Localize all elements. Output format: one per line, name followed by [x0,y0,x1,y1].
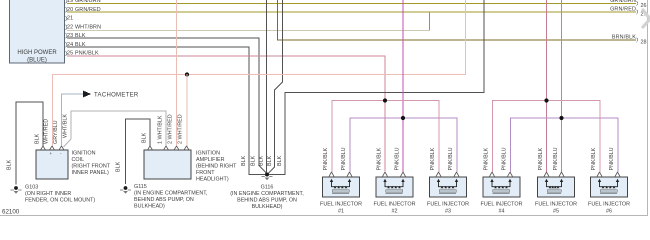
wire BRN/BLK vertical from top [277,0,278,40]
svg-text:PNK/BLU: PNK/BLU [448,147,454,170]
svg-text:IGNITION: IGNITION [196,151,220,157]
wire GRN/BRN row pin19 to pin26 [67,3,636,4]
svg-text:PNK/BLK: PNK/BLK [323,147,329,170]
connector pin brackets left (pins 19-25) [66,0,68,56]
svg-text:TACHOMETER: TACHOMETER [94,92,139,98]
svg-text:BLK: BLK [251,155,257,166]
svg-text:IGNITION: IGNITION [72,151,96,157]
svg-text:#5: #5 [553,209,559,215]
svg-text:#2: #2 [392,209,398,215]
G116 converging wires [249,165,285,175]
wire GRY/BLU coil to tachometer [62,94,84,147]
wire GRN/RED tap down to WHT/BRN row [429,12,430,32]
injector #2 internal coil symbol [385,182,403,187]
svg-text:62100: 62100 [2,209,20,216]
fuel injector #1 [320,147,362,214]
svg-text:21: 21 [67,16,73,22]
junction dot bus1 right [544,98,548,102]
svg-text:PNK/BLU: PNK/BLU [553,147,559,170]
injector #3 pin sockets [436,172,459,177]
injector bus 1 right (PNK/BLK) [492,100,600,101]
svg-text:26: 26 [641,3,647,9]
svg-text:#6: #6 [606,209,612,215]
ground G103 [11,186,22,194]
svg-text:PNK/BLK: PNK/BLK [483,147,489,170]
svg-text:HEADLIGHT): HEADLIGHT) [196,177,229,183]
svg-text:WHT/BLK: WHT/BLK [63,114,69,138]
page border right [647,0,648,216]
wire WHT/BLK diagonal into coil [64,139,72,147]
svg-text:PNK/BLU: PNK/BLU [394,147,400,170]
svg-text:(ON RIGHT INNER: (ON RIGHT INNER [25,191,71,197]
svg-text:FUEL INJECTOR: FUEL INJECTOR [588,202,630,208]
wire BLK pin23 vertical to G116 [259,38,260,166]
injector #6 internal coil symbol [600,182,618,187]
wire BLK row pin23 [67,38,260,39]
svg-text:(IN ENGINE COMPARTMENT,: (IN ENGINE COMPARTMENT, [134,191,208,197]
svg-text:FUEL INJECTOR: FUEL INJECTOR [535,202,577,208]
svg-text:PNK/BLK: PNK/BLK [591,147,597,170]
svg-text:(IN ENGINE COMPARTMENT,: (IN ENGINE COMPARTMENT, [230,191,304,197]
svg-text:PNK/BLK: PNK/BLK [538,147,544,170]
wire BLK vertical from top with jog (v4) [275,0,283,168]
ground G116 junction [249,165,285,180]
wire WHT/RED vertical from top [465,0,466,75]
svg-text:PNK/BLU: PNK/BLU [341,147,347,170]
right connector pin brackets (26-28) [637,1,638,42]
svg-text:FUEL INJECTOR: FUEL INJECTOR [374,202,416,208]
wire BLK horizontal bus to G116 [285,92,485,93]
wire BLK amplifier to ground G115 [126,119,151,184]
wire PNK/BLK vertical to injector bus 1 [385,56,386,172]
svg-text:(RIGHT FRONT: (RIGHT FRONT [72,164,111,170]
injector #6 pin sockets [597,172,620,177]
svg-text:22 WHT/BRN: 22 WHT/BRN [67,24,101,30]
junction dot bus1 left [383,98,387,102]
svg-text:BLK: BLK [267,155,273,166]
fuel injector #4 [481,147,523,214]
svg-text:FUEL INJECTOR: FUEL INJECTOR [481,202,523,208]
svg-text:INNER PANEL): INNER PANEL) [72,170,110,176]
injector drop wires PNK/BLK (left pins) [332,100,333,172]
junction dot WHT/RED bus [185,72,189,76]
coil pin sockets [41,146,65,150]
injector #5 core bar [547,190,561,193]
wire BRN/BLK row to pin28 [277,40,636,41]
svg-text:1 WHT/BLK: 1 WHT/BLK [158,115,164,144]
injector #4 pin sockets [490,172,513,177]
wire WHT/RED vertical from top to amplifier pin 2 [176,0,177,147]
svg-text:BULKHEAD): BULKHEAD) [252,204,283,210]
wire GRN/RED row pin20 to pin27 [67,12,636,13]
injector #4 internal coil symbol [492,182,510,187]
wire PNK/BLU vertical from top to injector bus 2 [403,0,404,172]
junction dot bus2 right [559,116,563,120]
svg-text:HIGH POWER: HIGH POWER [17,50,57,56]
amplifier pin sockets [148,146,190,150]
svg-text:GRN/RED: GRN/RED [610,7,636,13]
injector #1 pin sockets [329,172,352,177]
injector #3 core bar [439,190,456,193]
fuel injector #5 [535,147,577,214]
svg-text:BLK: BLK [35,133,41,144]
fuel injector #6 [588,147,630,214]
wire BLK from bus down to G116 (v5) [285,92,286,175]
svg-text:28: 28 [641,40,647,46]
svg-text:COIL: COIL [72,157,85,163]
wire WHT/BRN row pin22 [67,30,430,31]
svg-text:PNK/BLU: PNK/BLU [501,147,507,170]
tachometer arrow [83,91,91,98]
wire BLK pin24 vertical to G116 [249,47,250,176]
svg-text:PNK/BLK: PNK/BLK [430,147,436,170]
svg-text:PNK/BLU: PNK/BLU [609,147,615,170]
injector drop wires PNK/BLU (right pins) [350,118,351,173]
svg-text:GRY/BLU: GRY/BLU [53,120,59,144]
wire PNK/BLK row pin25 [67,56,385,57]
ECU connector HIGH POWER (BLUE) [10,0,65,64]
svg-text:WHT/RED: WHT/RED [44,119,50,144]
svg-text:FUEL INJECTOR: FUEL INJECTOR [427,202,469,208]
svg-text:BLK: BLK [277,155,283,166]
injector #6 core bar [600,190,617,193]
wire PNK/BLK vertical from top to right bus 1 [546,0,547,172]
wire WHT/RED horizontal bus [52,74,466,75]
wire WHT/RED to ignition coil [52,74,53,147]
ground G115 [120,186,131,194]
injector bus 1 left (PNK/BLK) [332,100,440,101]
svg-text:BRN/BLK: BRN/BLK [612,35,636,41]
svg-text:G103: G103 [25,185,38,191]
junction dot bus2 left [401,116,405,120]
svg-text:AMPLIFIER: AMPLIFIER [196,157,225,163]
svg-text:BULKHEAD): BULKHEAD) [134,204,165,210]
injector #4 core bar [493,190,510,193]
svg-text:FENDER, ON COIL MOUNT): FENDER, ON COIL MOUNT) [25,198,95,204]
svg-text:2 WHT/RED: 2 WHT/RED [178,114,184,144]
injector #1 core bar [332,190,349,193]
svg-text:BLK: BLK [116,161,122,172]
svg-text:GRN/BRN: GRN/BRN [610,0,636,4]
wire BLK row pin24 [67,47,250,48]
svg-text:G116: G116 [261,185,274,191]
svg-text:(BLUE): (BLUE) [27,58,47,64]
svg-text:PNK/BLK: PNK/BLK [376,147,382,170]
injector #1 internal coil symbol [332,182,350,187]
fuel injector #3 [427,147,469,214]
wire WHT/RED bus drop to amplifier pin 2 [187,74,188,147]
svg-text:FRONT: FRONT [196,170,215,176]
svg-text:BEHIND ABS PUMP, ON: BEHIND ABS PUMP, ON [134,197,194,203]
cursor artifact right edge [643,10,650,27]
svg-text:G115: G115 [134,184,147,190]
ignition coil box [36,150,68,179]
injector #2 core bar [386,190,403,193]
injector bus 2 left (PNK/BLU) [350,118,458,119]
injector bus 2 right (PNK/BLU) [510,118,618,119]
svg-text:BEHIND ABS PUMP, ON: BEHIND ABS PUMP, ON [237,198,297,204]
page border bottom [0,215,648,216]
wire BLK vertical from top to G116 (v3) [266,0,267,174]
fuel injector #2 [374,147,416,214]
wire PNK/BLU vertical from top to right bus 2 [561,0,562,172]
svg-text:FUEL INJECTOR: FUEL INJECTOR [320,202,362,208]
ignition amplifier box [144,150,191,179]
svg-text:(BEHIND RIGHT: (BEHIND RIGHT [196,164,237,170]
wire WHT/BLK coil to amplifier pin 1 [71,111,166,147]
injector #5 internal coil symbol [547,182,562,187]
svg-text:BLK: BLK [7,159,13,170]
wire BLK vertical from top at x484 [484,0,485,93]
wire BLK coil to ground G103 [16,102,43,185]
svg-text:2 WHT/RED: 2 WHT/RED [168,114,174,144]
injector #2 pin sockets [383,172,406,177]
svg-text:#4: #4 [499,209,505,215]
injector #5 pin sockets [544,172,564,177]
svg-text:BLK: BLK [142,132,148,143]
svg-text:#1: #1 [338,209,344,215]
svg-text:#3: #3 [445,209,451,215]
svg-text:BLK: BLK [241,155,247,166]
injector #3 internal coil symbol [439,182,457,187]
svg-text:+: + [50,151,53,156]
svg-text:BLK: BLK [259,155,265,166]
